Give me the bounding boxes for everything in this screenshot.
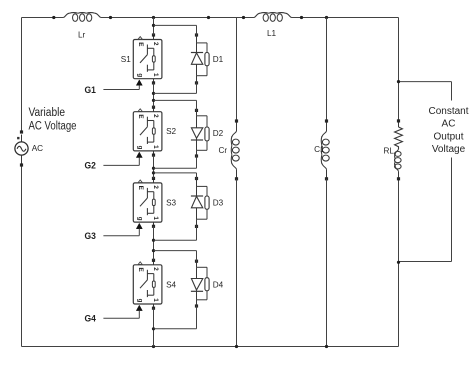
svg-text:D4: D4 bbox=[213, 281, 224, 290]
svg-text:G3: G3 bbox=[85, 231, 96, 242]
svg-text:AC: AC bbox=[442, 119, 456, 130]
svg-text:S3: S3 bbox=[166, 198, 176, 207]
svg-text:G4: G4 bbox=[85, 314, 97, 325]
svg-text:2: 2 bbox=[152, 185, 159, 189]
svg-text:S4: S4 bbox=[166, 280, 176, 289]
svg-text:Voltage: Voltage bbox=[432, 144, 466, 155]
svg-text:S1: S1 bbox=[121, 55, 131, 64]
svg-text:Variable: Variable bbox=[29, 107, 66, 119]
svg-text:AC Voltage: AC Voltage bbox=[29, 120, 77, 132]
svg-text:RL: RL bbox=[384, 147, 395, 156]
svg-text:g: g bbox=[137, 146, 144, 150]
svg-text:E: E bbox=[137, 114, 144, 118]
svg-text:2: 2 bbox=[152, 114, 159, 118]
svg-text:2: 2 bbox=[152, 42, 159, 46]
svg-text:E: E bbox=[137, 267, 144, 271]
svg-text:Lr: Lr bbox=[78, 31, 86, 40]
svg-text:AC: AC bbox=[32, 144, 43, 153]
svg-text:1: 1 bbox=[152, 73, 159, 77]
svg-text:G1: G1 bbox=[85, 85, 97, 96]
svg-text:D3: D3 bbox=[213, 198, 224, 207]
svg-text:1: 1 bbox=[152, 216, 159, 220]
svg-text:1: 1 bbox=[152, 298, 159, 302]
svg-text:Cr: Cr bbox=[219, 146, 228, 155]
svg-text:g: g bbox=[137, 299, 144, 303]
svg-text:E: E bbox=[137, 186, 144, 190]
svg-text:Constant: Constant bbox=[428, 106, 468, 117]
svg-text:D2: D2 bbox=[213, 129, 224, 138]
svg-text:S2: S2 bbox=[166, 127, 176, 136]
svg-text:E: E bbox=[137, 42, 144, 46]
svg-text:2: 2 bbox=[152, 267, 159, 271]
svg-text:g: g bbox=[137, 73, 144, 77]
svg-text:C1: C1 bbox=[314, 145, 325, 154]
svg-text:Output: Output bbox=[433, 131, 463, 142]
svg-text:G2: G2 bbox=[85, 161, 96, 172]
svg-text:1: 1 bbox=[152, 145, 159, 149]
svg-text:L1: L1 bbox=[267, 29, 277, 38]
svg-text:D1: D1 bbox=[213, 55, 224, 64]
svg-text:g: g bbox=[137, 217, 144, 221]
